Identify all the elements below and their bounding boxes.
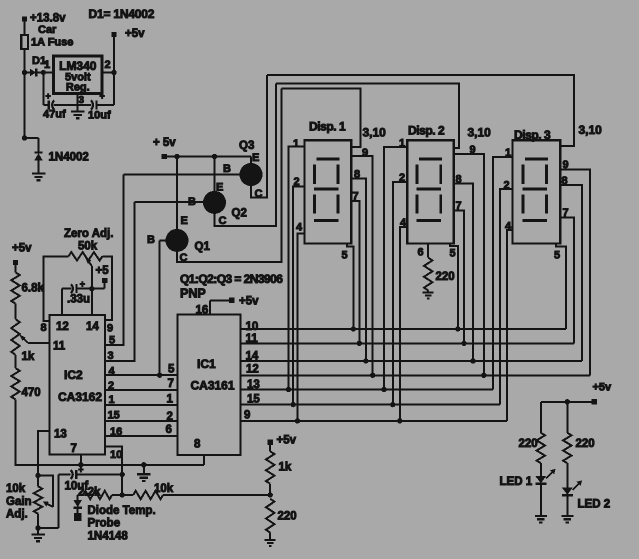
label Q2 B [188, 196, 196, 208]
svg-text:Disp. 2: Disp. 2 [408, 124, 445, 138]
svg-text:4: 4 [296, 222, 303, 234]
svg-text:+5v: +5v [12, 243, 32, 255]
label IC2 pin15 [108, 410, 120, 422]
svg-text:220: 220 [278, 511, 297, 523]
wire rung pin16-pin6 [105, 435, 178, 437]
svg-text:+: + [100, 91, 105, 101]
svg-text:.33u: .33u [67, 294, 90, 306]
svg-text:10: 10 [246, 321, 259, 333]
label IC2 pin12 [56, 321, 69, 333]
svg-text:+: + [46, 91, 51, 101]
label Q1 [195, 241, 211, 253]
label DISP2 pin6 [418, 247, 424, 259]
wire battery to fuse [24, 22, 26, 36]
label DISP2 pin7 [456, 200, 462, 212]
label IC1 pin5 [168, 364, 175, 376]
resistor R8 1k [266, 445, 292, 495]
svg-text:Disp. 1: Disp. 1 [309, 120, 346, 134]
label DISP1 pin8 [354, 169, 360, 181]
svg-text:Q3: Q3 [239, 140, 254, 152]
label DISP2 pin2 [399, 172, 405, 184]
svg-text:1k: 1k [22, 351, 35, 363]
svg-text:6.8k: 6.8k [22, 283, 45, 295]
svg-text:6: 6 [418, 247, 424, 259]
wire DISP3 pin4 [507, 230, 513, 421]
potentiometer R5 10k gain [34, 475, 42, 528]
wire DISP1 pin5 [347, 244, 356, 332]
svg-text:14: 14 [86, 321, 99, 333]
IC IC1 CA3161 [178, 315, 241, 455]
LED LED1 [500, 463, 556, 516]
svg-text:Q1:Q2:Q3 = 2N3906: Q1:Q2:Q3 = 2N3906 [180, 272, 283, 286]
power node +13.8v [22, 13, 66, 25]
display DISP1 title [309, 120, 346, 134]
svg-text:+5v: +5v [125, 28, 145, 40]
label IC2 pin16 [110, 426, 122, 438]
wire pin16 stub [196, 300, 210, 316]
wire rung pin2-pin7 [105, 389, 178, 391]
svg-text:Q2: Q2 [232, 208, 247, 220]
wire IC2 pin3 to Q2 base [105, 202, 135, 361]
power node +5v LED [592, 382, 612, 405]
label IC2 pin4 [109, 366, 116, 378]
label Q1 B [147, 234, 155, 246]
wire DISP2 pin2 [390, 182, 407, 407]
svg-text:IC1: IC1 [197, 357, 216, 371]
label IC2 pin13 [54, 429, 67, 441]
node Q2 emitter junction [212, 154, 217, 159]
svg-text:2.2k: 2.2k [78, 487, 101, 499]
ground below disp2 [423, 291, 434, 299]
label DISP2 pin8 [456, 174, 462, 186]
svg-text:2: 2 [105, 59, 111, 71]
svg-text:B: B [223, 163, 231, 175]
wire DISP1 pin8 [351, 178, 368, 363]
svg-text:Diode Temp.: Diode Temp. [88, 505, 156, 517]
label IC1 pin9 [244, 410, 250, 422]
ground below LED1 [535, 516, 547, 522]
wire LM340 pin2 to +5v node [102, 70, 117, 75]
label DISP3 pin2 [504, 180, 510, 192]
wire DISP2 pin4 [397, 227, 407, 424]
label DISP2 pin1 [399, 138, 405, 150]
label IC2 pin5 [109, 335, 115, 347]
wire DISP2 pin7 [454, 210, 467, 346]
label DISP3 pin7 [563, 207, 569, 219]
wire DISP1 pin7 [351, 201, 362, 346]
svg-text:5: 5 [450, 248, 456, 260]
resistor R3 470 [11, 368, 40, 399]
svg-text:1k: 1k [279, 462, 292, 474]
wire LED1 branch [540, 402, 542, 433]
svg-text:+: + [78, 465, 83, 475]
node wiper-cap junction [89, 286, 94, 291]
wire cap to pin12 [61, 289, 63, 315]
svg-text:+5: +5 [96, 265, 110, 277]
svg-text:CA3161: CA3161 [191, 379, 235, 393]
label IC2 pin2 [108, 380, 114, 392]
wire DISP3 pin7 [560, 217, 574, 343]
wire DISP3 anode 3,10 [267, 75, 574, 146]
label +5v IC1 pin16 [210, 296, 259, 308]
label DISP2 3,10 [468, 126, 492, 140]
power node +5v divider [268, 435, 297, 447]
svg-text:10k: 10k [154, 483, 174, 495]
wire IC1 pin8 to rail [203, 455, 205, 465]
label Q3 [239, 140, 254, 152]
wire to 6.8k [15, 265, 17, 272]
svg-text:10k: 10k [6, 483, 26, 495]
potentiometer R2 1k [11, 319, 35, 363]
svg-text:LED 1: LED 1 [500, 476, 533, 488]
wire DISP2 pin5 [450, 244, 460, 332]
svg-text:7: 7 [71, 443, 77, 455]
svg-text:+: + [80, 279, 85, 289]
node Q1 emitter junction [174, 154, 179, 159]
capacitor C2 10uf [78, 91, 114, 122]
label IC1 pin10 [246, 321, 259, 333]
label D1 [32, 55, 46, 67]
wire IC1 pin10 row [240, 328, 566, 330]
label Q2 C [219, 215, 227, 227]
wire sensor line [78, 492, 271, 497]
display DISP1 [305, 140, 352, 243]
label IC2 pin10 [110, 449, 122, 461]
wire 50k right to pin9 [102, 256, 112, 320]
wire Q1 base [160, 240, 166, 375]
display DISP3 [513, 140, 561, 243]
node gain pot bottom [35, 525, 40, 530]
resistor R10 220 disp2 [424, 258, 455, 291]
svg-text:50k: 50k [78, 241, 98, 253]
fuse F1 1A [21, 24, 73, 49]
label DISP3 pin5 [554, 250, 560, 262]
node gain pot top [35, 473, 40, 478]
wire Q3 base [123, 173, 240, 175]
label transistor type [180, 272, 283, 301]
label DISP1 pin9 [362, 147, 368, 159]
label diode temp probe [88, 505, 156, 543]
resistor R11 220 LED1 [519, 433, 546, 463]
wire 6.8k to pot [15, 304, 17, 320]
power node +5v rail [153, 137, 176, 159]
svg-text:3,10: 3,10 [579, 123, 603, 137]
wire DISP2 pin6 [427, 244, 429, 258]
resistor R7 10k [133, 483, 174, 499]
label Q3 C [255, 188, 263, 200]
label Q1 C [180, 252, 188, 264]
label pin3 LM340 [79, 95, 85, 106]
label DISP3 pin4 [505, 221, 512, 233]
svg-text:11: 11 [53, 341, 66, 353]
wire LM340 pin3 down [77, 94, 79, 106]
wire Q3 collector [251, 75, 267, 197]
power node +5v top [111, 28, 145, 40]
wire down to 1N4002 branch [22, 73, 39, 152]
wire rung pin1-pin1 [105, 404, 178, 406]
wire 50k left to pin8 [43, 256, 68, 321]
label DISP1 pin4 [296, 222, 303, 234]
svg-text:8: 8 [41, 322, 47, 334]
svg-text:1N4002: 1N4002 [49, 152, 89, 164]
svg-text:Probe: Probe [88, 518, 121, 530]
wire Q2 collector [215, 84, 276, 227]
label Q3 E [252, 152, 259, 164]
svg-text:1N4148: 1N4148 [88, 531, 129, 543]
wire DISP2 pin8 [454, 184, 476, 364]
wire IC1 pin15 row [240, 404, 500, 406]
svg-text:Car: Car [38, 24, 57, 36]
wire fuse to node [24, 49, 26, 73]
wire IC1 pin13 row [240, 389, 493, 391]
wire DISP1 pin1 [286, 147, 305, 393]
svg-text:CA3162: CA3162 [58, 390, 102, 404]
wire DISP2 pin9 [454, 154, 487, 378]
wire 470 to ground rail [16, 399, 204, 464]
label DISP1 pin1 [293, 138, 299, 150]
svg-text:Adj.: Adj. [6, 509, 28, 521]
wiper 50k to pin14 [85, 257, 92, 315]
label Q3 B [223, 163, 231, 175]
svg-text:220: 220 [436, 271, 455, 283]
wire IC1 pin9 row [240, 420, 506, 422]
label Q2 E [216, 182, 223, 194]
label DISP3 3,10 [579, 123, 603, 137]
label IC1 pin1 [167, 394, 174, 406]
label DISP3 pin9 [563, 159, 569, 171]
svg-text:13: 13 [54, 429, 67, 441]
label DISP3 pin8 [562, 175, 568, 187]
svg-text:+5v: +5v [239, 296, 259, 308]
wiper arrow gain pot [38, 475, 53, 507]
wire pot to 470 [15, 355, 17, 368]
resistor R6 2.2k [78, 487, 112, 500]
wire Q1 collector [177, 89, 282, 262]
wire +5v down [113, 37, 115, 105]
ground on rail [137, 462, 151, 481]
label IC1 pin8 [194, 439, 201, 451]
wire rung pin15-pin2 [105, 420, 178, 422]
wire DISP3 pin8 [560, 185, 582, 361]
svg-text:9: 9 [362, 147, 368, 159]
svg-text:Zero Adj.: Zero Adj. [64, 228, 113, 240]
transistor Q1 [166, 157, 189, 252]
wire rung pin4-pin5 [105, 373, 178, 378]
ground below gain pot [31, 531, 45, 542]
resistor R9 220 [266, 499, 297, 540]
ground below 1N4002 [32, 174, 46, 181]
svg-text:6: 6 [166, 424, 172, 436]
svg-text:12: 12 [56, 321, 69, 333]
label IC2 pin3 [108, 350, 114, 362]
label IC1 pin13 [247, 379, 260, 391]
wire LED rail [541, 399, 592, 404]
svg-text:5: 5 [554, 250, 560, 262]
wire IC1 pin14 row [240, 360, 582, 362]
label DISP3 pin1 [505, 147, 511, 159]
svg-text:+5v: +5v [593, 382, 613, 394]
wire DISP1 pin4 [295, 233, 305, 423]
label Q1 E [181, 215, 188, 227]
wire Q2 base [135, 201, 204, 203]
svg-text:12: 12 [246, 364, 259, 376]
label IC2 pin11 [53, 341, 66, 353]
svg-text:9: 9 [244, 410, 250, 422]
label IC1 pin15 [247, 394, 260, 406]
node divider junction [268, 492, 273, 497]
label 10k Gain Adj [6, 483, 32, 521]
label DISP1 3,10 [363, 126, 387, 140]
wire DISP3 pin1 [493, 157, 512, 390]
node junction at D1 [22, 70, 27, 75]
svg-text:E: E [181, 215, 188, 227]
svg-text:IC2: IC2 [64, 368, 83, 382]
wire IC2 pin10 L [105, 446, 122, 495]
label IC2 pin14 [86, 321, 99, 333]
svg-text:1: 1 [293, 138, 299, 150]
display DISP3 title [514, 128, 551, 142]
label DISP1 pin7 [353, 191, 359, 203]
svg-text:220: 220 [576, 438, 595, 450]
svg-text:10: 10 [110, 449, 122, 461]
svg-text:3,10: 3,10 [363, 126, 387, 140]
svg-text:LED 2: LED 2 [578, 499, 611, 511]
wire pin1 branch down [41, 70, 46, 105]
label IC1 pin2 [167, 411, 173, 423]
wire DISP3 pin5 [556, 244, 566, 330]
ground below LED2 [561, 516, 573, 522]
label DISP1 pin5 [342, 250, 348, 262]
svg-text:1A Fuse: 1A Fuse [31, 37, 73, 49]
node 10uf right [120, 472, 125, 477]
diode D3 temp probe [73, 495, 82, 521]
svg-text:220: 220 [519, 438, 538, 450]
svg-text:+5v: +5v [277, 435, 297, 447]
wire IC1 pin11 row [240, 342, 574, 344]
LED LED2 [562, 463, 610, 516]
transistor Q2 [203, 157, 226, 214]
wire DISP3 pin2 [500, 189, 513, 404]
regulator U1 LM340 [54, 56, 103, 94]
label pin1 LM340 [44, 59, 50, 71]
svg-text:E: E [252, 152, 259, 164]
svg-text:9: 9 [107, 323, 113, 335]
label DISP2 pin9 [470, 144, 476, 156]
label IC2 pin8 [41, 322, 47, 334]
diode D1 [25, 69, 54, 77]
svg-text:3,10: 3,10 [468, 126, 492, 140]
svg-text:47uf: 47uf [43, 109, 66, 121]
label pin2 LM340 [105, 59, 111, 71]
svg-text:2: 2 [167, 411, 173, 423]
label IC1 pin6 [166, 424, 172, 436]
label IC2 pin9 [107, 323, 113, 335]
svg-text:+13.8v: +13.8v [30, 13, 66, 25]
wire emitter rail [167, 156, 251, 158]
svg-text:470: 470 [22, 387, 41, 399]
ground below divider [265, 540, 276, 546]
label IC1 pin14 [246, 351, 259, 363]
capacitor C3 .33u [62, 279, 105, 306]
svg-text:Q1: Q1 [195, 241, 211, 253]
svg-text:B: B [147, 234, 155, 246]
label IC1 pin12 [246, 364, 259, 376]
IC IC2 CA3162 [50, 315, 105, 455]
svg-text:1: 1 [167, 394, 174, 406]
wire LED2 branch [566, 402, 568, 433]
wire DISP3 pin9 [560, 169, 590, 375]
wire IC2 pin7 to rail [78, 455, 83, 468]
label DISP1 pin2 [294, 176, 300, 188]
svg-text:PNP: PNP [180, 287, 206, 301]
wire IC2 pin13 to gain pot [38, 431, 50, 475]
label Q2 [232, 208, 247, 220]
svg-text:5: 5 [168, 364, 175, 376]
svg-text:+ 5v: + 5v [153, 137, 176, 149]
svg-text:1: 1 [44, 59, 50, 71]
label Zero Adj 50k [64, 228, 113, 253]
svg-text:8: 8 [194, 439, 201, 451]
wire DISP1 pin2 [291, 186, 305, 407]
svg-text:Reg.: Reg. [66, 82, 90, 94]
label IC2 pin1 [109, 394, 115, 406]
label IC1 pin11 [246, 333, 259, 345]
capacitor C1 47uf [43, 91, 78, 121]
wire DISP2 pin1 [381, 147, 407, 392]
label DISP2 pin5 [450, 248, 456, 260]
svg-text:10uf: 10uf [88, 110, 111, 122]
diode D2 1N4002 to ground [34, 152, 88, 174]
svg-text:D1= 1N4002: D1= 1N4002 [89, 7, 155, 21]
display DISP2 title [408, 124, 445, 138]
svg-text:15: 15 [108, 410, 120, 422]
transistor Q3 [240, 157, 263, 187]
label DISP2 pin4 [400, 217, 407, 229]
potentiometer R4 50k Zero Adj [69, 252, 103, 260]
wire 10uf link [38, 475, 59, 529]
resistor R1 6.8k [11, 272, 44, 303]
display DISP2 [407, 140, 453, 243]
label IC2 pin7 [71, 443, 77, 455]
resistor R12 220 LED2 [563, 433, 595, 463]
wire DISP2 anode 3,10 [276, 84, 459, 149]
svg-text:5: 5 [342, 250, 348, 262]
wire IC2 pin5 to Q3 base [105, 174, 124, 345]
svg-text:7: 7 [168, 378, 174, 390]
wire DISP1 anode 3,10 [282, 89, 361, 147]
svg-text:Gain: Gain [6, 496, 32, 508]
wire DISP1 pin9 [351, 156, 375, 378]
power node +5 zero adj [96, 265, 110, 289]
label IC1 pin7 [168, 378, 174, 390]
label D1= 1N4002 [89, 7, 155, 21]
capacitor C4 10uf [59, 465, 123, 493]
power node +5v left [12, 243, 32, 266]
wiper arrow 1k pot [19, 334, 49, 343]
wire IC1 pin12 row [240, 374, 590, 376]
ground below LM340 [71, 105, 85, 118]
